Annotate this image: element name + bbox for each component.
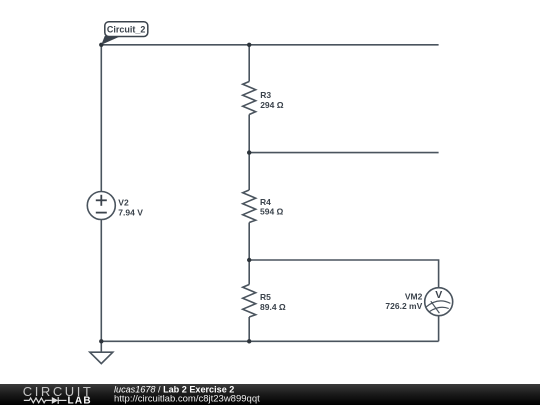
wire: R4 to node between R4/R5 bbox=[248, 223, 250, 285]
wire: left vertical, top of V2 bbox=[100, 45, 102, 192]
footer bar bbox=[0, 384, 540, 405]
svg-text:http://circuitlab.com/c8jt23w8: http://circuitlab.com/c8jt23w899qqt bbox=[114, 393, 260, 404]
CircuitLab logo diode triangle bbox=[52, 397, 58, 404]
wire: horizontal net R4/R5 junction to voltmeter bbox=[249, 260, 438, 288]
wire: R3 to node between R3/R4 bbox=[248, 115, 250, 191]
wire: resistor chain top segment bbox=[248, 45, 250, 82]
voltage source V2 bbox=[87, 192, 115, 220]
wire: R5 bottom to bottom net bbox=[248, 317, 250, 341]
wire: voltmeter bottom to bottom net bbox=[438, 316, 440, 342]
wire: middle horizontal net R3/R4 junction to right bbox=[249, 152, 438, 154]
ground bbox=[100, 341, 102, 352]
label bubble Circuit_2 bbox=[101, 36, 120, 45]
wire: bottom horizontal net bbox=[101, 340, 438, 342]
node: bottom junction at resistor chain bbox=[247, 339, 251, 343]
CircuitLab logo resistor squiggle bbox=[24, 397, 67, 404]
node: bottom-left ground junction bbox=[99, 339, 103, 343]
voltmeter VM2 bbox=[425, 288, 453, 316]
node: top junction at resistor chain bbox=[247, 43, 251, 47]
resistor R5 bbox=[243, 285, 256, 318]
node: junction R4/R5 bbox=[247, 258, 251, 262]
svg-text:LAB: LAB bbox=[68, 395, 92, 405]
resistor R3 bbox=[243, 82, 256, 115]
wire: top horizontal net from V2+ to right bbox=[101, 44, 438, 46]
wire: left vertical, bottom of V2 to bottom net bbox=[100, 220, 102, 342]
node: top-left corner junction bbox=[99, 43, 103, 47]
resistor R4 bbox=[243, 190, 256, 223]
node: junction R3/R4 bbox=[247, 150, 251, 154]
